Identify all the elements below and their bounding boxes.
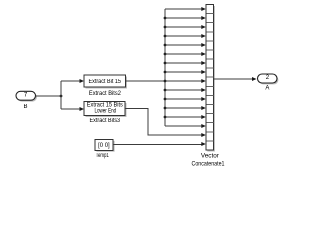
inport B shadow — [17, 93, 37, 102]
wire to Extract Bit 15 — [61, 80, 80, 82]
wire vertical branch — [60, 81, 62, 109]
wire B to junction — [36, 95, 62, 97]
svg-text:[0 0]: [0 0] — [98, 143, 110, 149]
svg-text:Extract Bits3: Extract Bits3 — [90, 118, 121, 124]
inport B (oval "7") — [16, 91, 36, 100]
svg-text:Lower End: Lower End — [94, 108, 116, 114]
svg-text:A: A — [265, 86, 269, 92]
svg-text:B: B — [23, 104, 27, 110]
outport A shadow — [259, 75, 279, 84]
block Extract 15 Bits Lower End shadow — [86, 103, 127, 117]
svg-text:Concatenate1: Concatenate1 — [192, 162, 226, 168]
block Extract Bit 15 — [84, 75, 126, 87]
svg-text:Temp1: Temp1 — [96, 153, 109, 159]
bus junction dots — [164, 17, 167, 119]
bus branches to concatenate inputs 1-14 — [165, 7, 206, 128]
constant Temp1 shadow — [96, 141, 114, 152]
svg-text:Extract Bits2: Extract Bits2 — [89, 91, 122, 97]
wire Extract 15 Bits output to input 15 — [125, 109, 201, 136]
block Extract Bit 15 shadow — [86, 77, 128, 89]
Vector Concatenate1 shadow — [207, 6, 215, 152]
bus vertical wire — [164, 9, 166, 126]
wire to Extract Bits3 block — [61, 108, 80, 110]
svg-text:Vector: Vector — [201, 153, 219, 159]
Vector Concatenate1 block — [206, 5, 214, 151]
junction dot — [60, 95, 63, 98]
cell dividers — [206, 14, 213, 141]
svg-text:Extract Bit 15: Extract Bit 15 — [88, 79, 121, 85]
wire Temp1 to input 16 — [113, 143, 201, 145]
outport A (oval "2") — [258, 74, 278, 83]
wire Extract Bit 15 output to bus — [126, 80, 166, 82]
constant Temp1 ([0 0]) — [95, 140, 113, 151]
block Extract 15 Bits Lower End — [84, 102, 125, 116]
wire output to A — [213, 78, 252, 80]
